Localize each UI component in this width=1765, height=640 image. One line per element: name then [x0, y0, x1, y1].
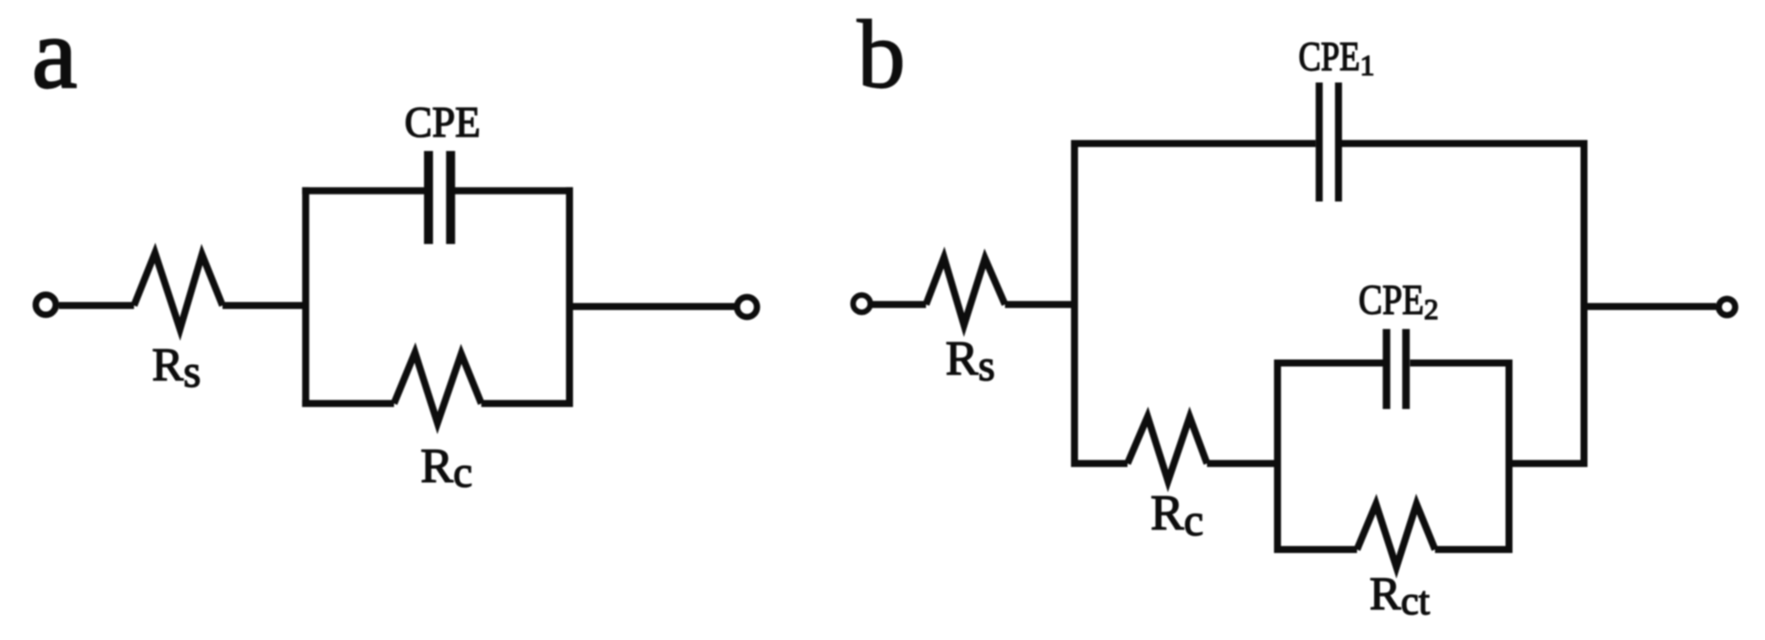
- resistor Rs (b): [926, 258, 1005, 326]
- wire top edge right segment (b): [1342, 140, 1588, 147]
- wire: [59, 302, 134, 309]
- resistor Rs (a): [134, 253, 223, 329]
- terminal T1a: [36, 295, 56, 315]
- resistor Rct (b): [1357, 504, 1435, 567]
- wire right edge of outer box (b): [1581, 140, 1588, 467]
- svg-text:b: b: [857, 1, 906, 108]
- wire top edge left segment of inner box (b): [1274, 360, 1383, 367]
- svg-text:Rs: Rs: [946, 331, 995, 391]
- wire stub from inner box to outer box right edge (b): [1509, 460, 1584, 467]
- terminal T2a: [737, 297, 757, 317]
- svg-text:Rs: Rs: [152, 339, 201, 397]
- svg-text:CPE1: CPE1: [1299, 33, 1375, 82]
- capacitor CPE: [424, 151, 433, 244]
- wire top edge right segment of inner box (b): [1410, 360, 1513, 367]
- wire right edge of inner box (b): [1506, 360, 1513, 554]
- svg-text:Rct: Rct: [1370, 568, 1430, 623]
- wire: [872, 301, 926, 308]
- wire top edge right segment (a): [455, 187, 573, 194]
- wire: [223, 302, 306, 309]
- svg-text:CPE: CPE: [405, 100, 481, 147]
- wire top edge left segment (b): [1071, 140, 1316, 147]
- capacitor CPE2: [1383, 329, 1391, 409]
- wire left edge of inner box (b): [1274, 360, 1281, 554]
- wire left edge of outer box (b): [1071, 140, 1078, 467]
- wire: [1207, 460, 1278, 467]
- svg-text:Rc: Rc: [421, 438, 473, 497]
- wire right edge of parallel box (a): [566, 187, 573, 407]
- wire: [570, 303, 737, 310]
- wire top edge left segment (a): [302, 187, 424, 194]
- wire bottom edge right segment of inner box (b): [1435, 546, 1513, 553]
- wire bottom edge right segment (a): [481, 400, 573, 407]
- wire: [1584, 303, 1716, 310]
- resistor Rc (b): [1128, 417, 1208, 481]
- svg-text:a: a: [32, 0, 77, 109]
- wire: [1005, 301, 1075, 308]
- capacitor CPE1: [1316, 83, 1323, 202]
- terminal T1b: [853, 295, 870, 312]
- wire bottom edge left segment of inner box (b): [1274, 546, 1357, 553]
- terminal T2b: [1719, 299, 1735, 315]
- resistor Rc (a): [394, 353, 481, 423]
- wire bottom edge left segment (a): [302, 400, 394, 407]
- wire bottom branch left segment (b): [1071, 460, 1128, 467]
- wire left edge of parallel box (a): [302, 187, 309, 407]
- svg-text:CPE2: CPE2: [1359, 278, 1439, 326]
- svg-text:Rc: Rc: [1151, 484, 1204, 545]
